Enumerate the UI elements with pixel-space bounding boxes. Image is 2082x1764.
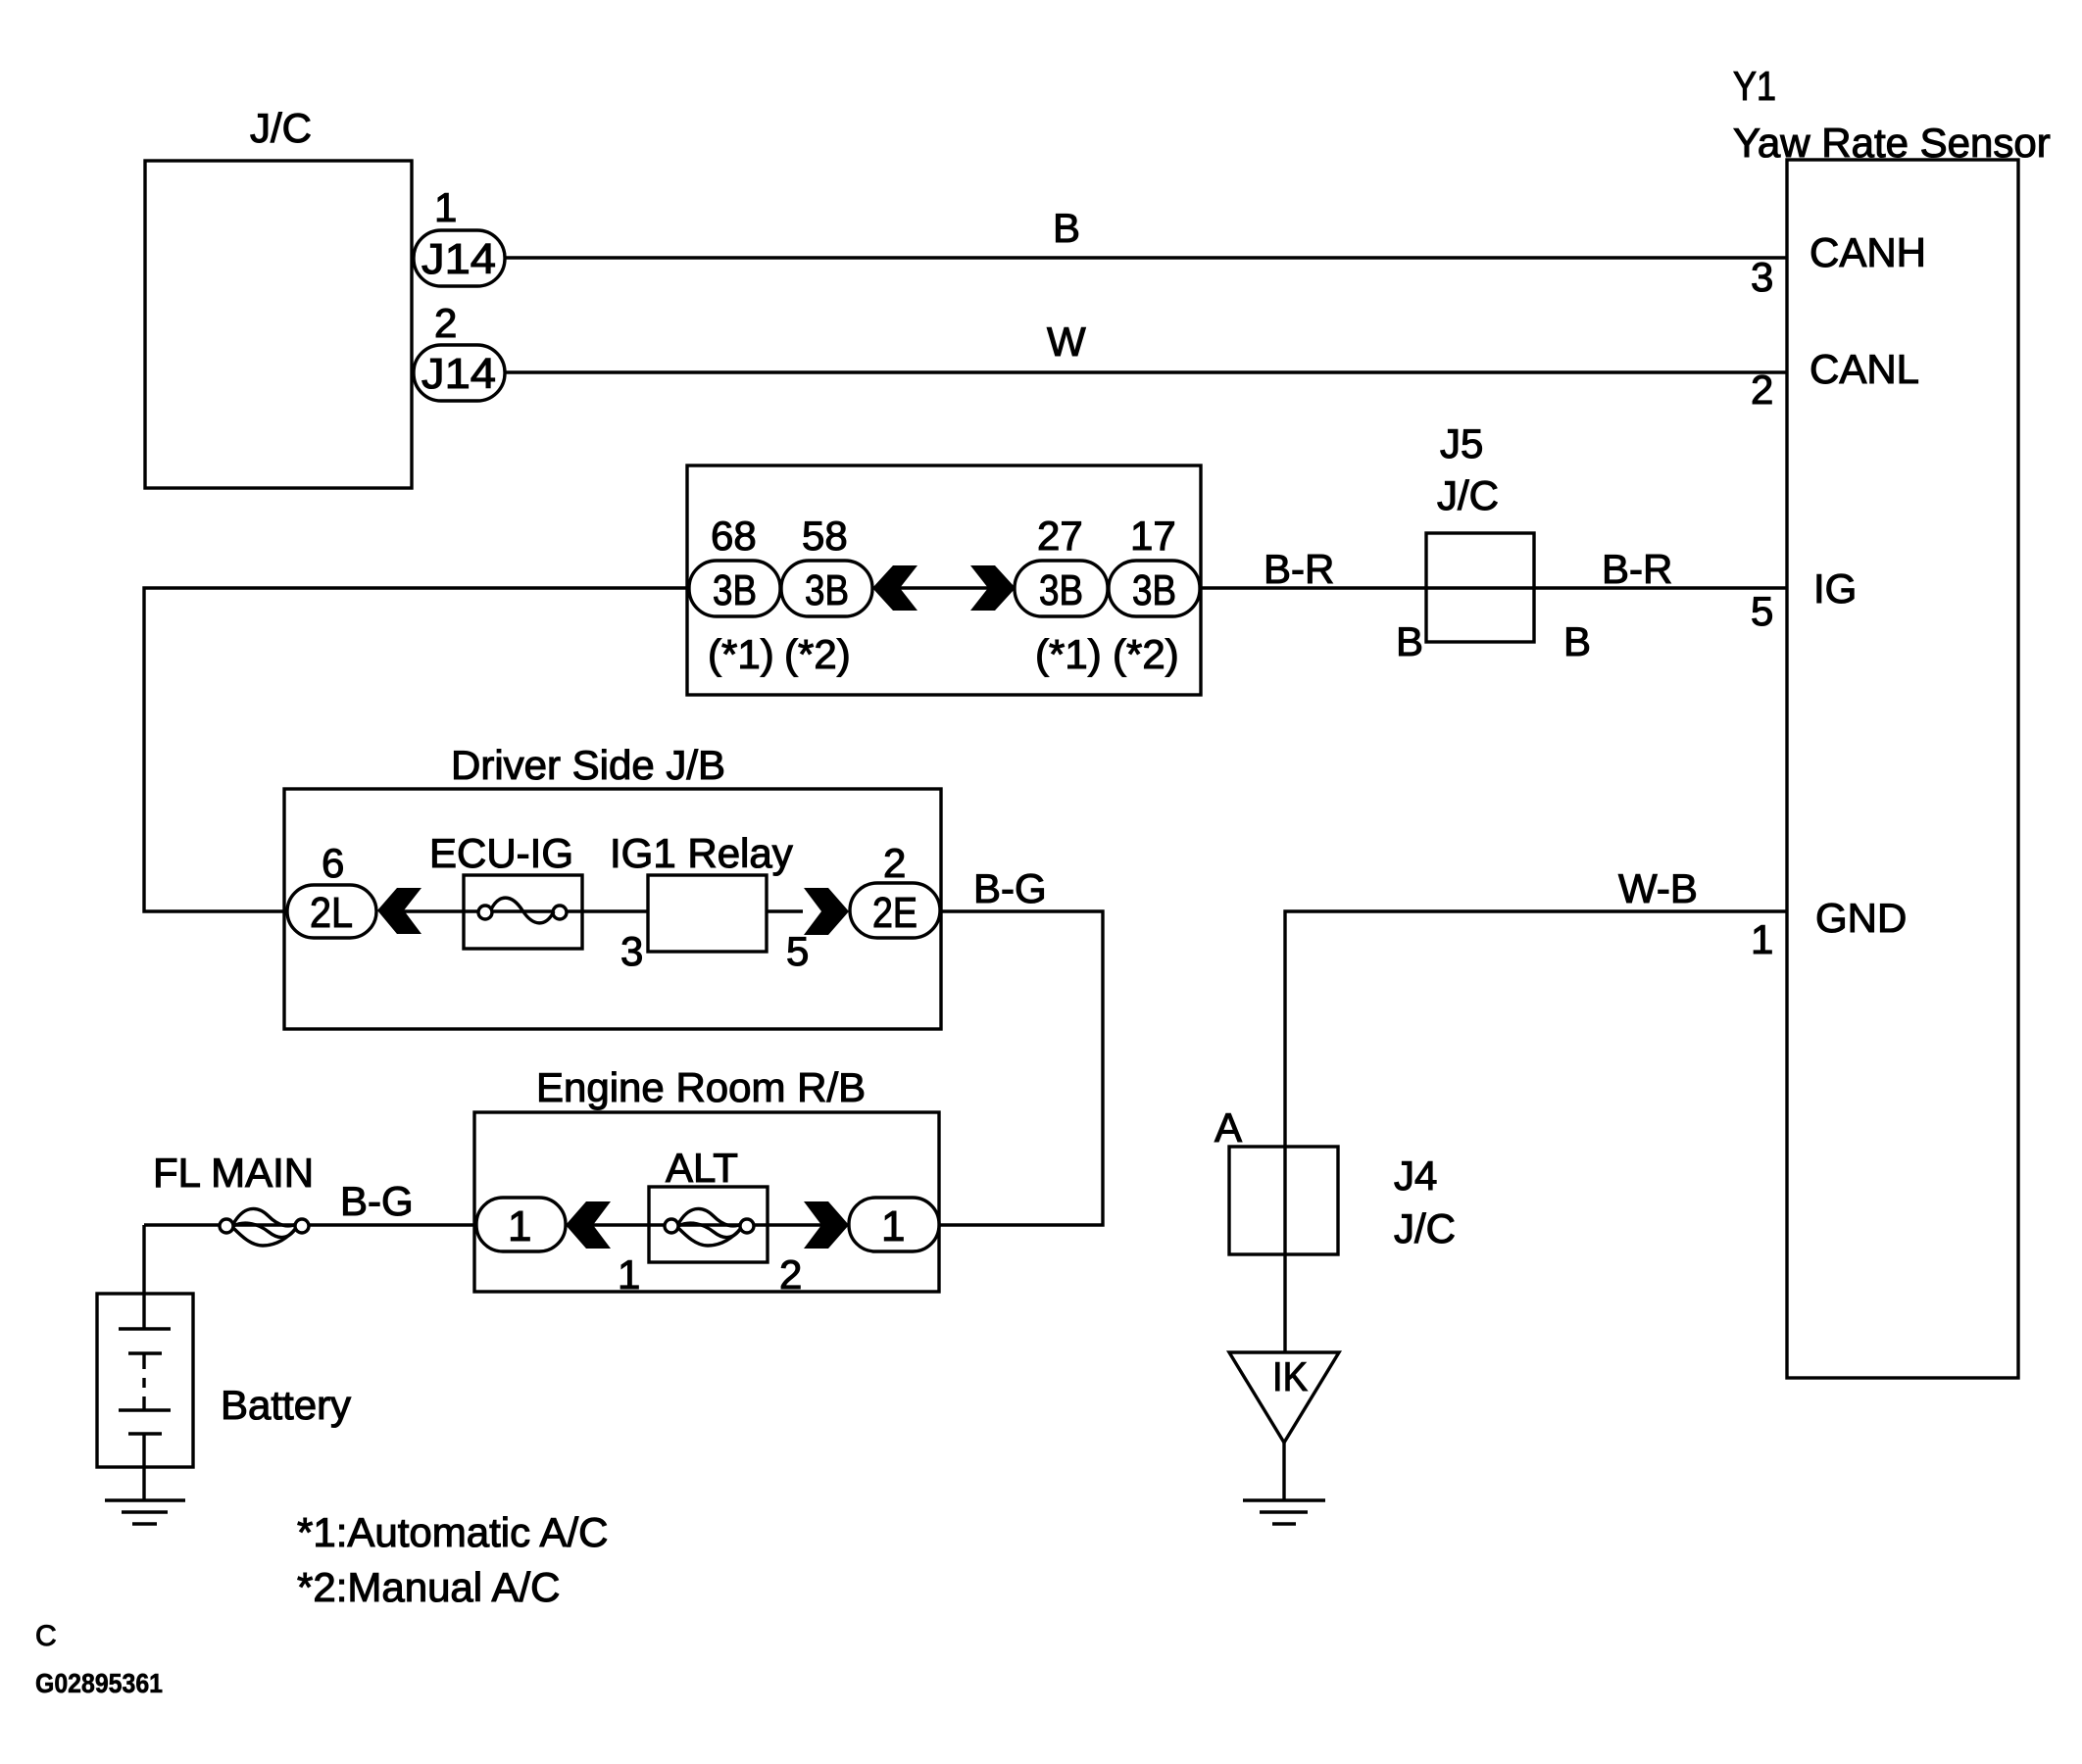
svg-text:Y1: Y1	[1733, 63, 1776, 109]
svg-text:W: W	[1047, 318, 1086, 365]
arrow right (2E)	[804, 888, 849, 935]
svg-text:FL MAIN: FL MAIN	[153, 1150, 314, 1196]
svg-text:ALT: ALT	[666, 1145, 738, 1191]
ground (IK)	[1243, 1498, 1325, 1501]
svg-text:Engine Room R/B: Engine Room R/B	[536, 1064, 866, 1110]
svg-text:B: B	[1053, 205, 1080, 251]
svg-text:Battery: Battery	[221, 1382, 351, 1428]
svg-text:CANH: CANH	[1809, 229, 1926, 275]
svg-text:B-G: B-G	[973, 865, 1047, 911]
svg-text:2: 2	[883, 840, 906, 886]
Yaw Rate Sensor Y1 box	[1787, 160, 2018, 1378]
ground triangle IK	[1229, 1352, 1339, 1443]
wire arrow through fuse to relay	[404, 909, 648, 912]
connector 3B pin 17	[1109, 561, 1200, 616]
arrow right (A/C box)	[970, 565, 1016, 611]
wire B-G from 2E down to Engine Room R/B	[939, 911, 1103, 1225]
svg-text:ECU-IG: ECU-IG	[429, 830, 573, 876]
wire to battery	[142, 1225, 145, 1294]
svg-text:Yaw Rate Sensor: Yaw Rate Sensor	[1733, 120, 2051, 166]
wire from A/C junction box left to left rail	[144, 588, 687, 911]
svg-text:58: 58	[802, 513, 848, 559]
svg-text:2L: 2L	[310, 889, 353, 937]
svg-text:GND: GND	[1815, 895, 1907, 941]
wire relay to arrow	[767, 909, 803, 912]
wire FL MAIN to Engine Room R/B	[144, 1223, 476, 1226]
svg-text:1: 1	[881, 1202, 905, 1250]
arrow left (Engine Room)	[566, 1201, 611, 1249]
connector 1 oval right	[849, 1198, 939, 1251]
connector 2L pin 6 oval	[287, 885, 376, 938]
svg-text:A: A	[1214, 1104, 1242, 1151]
ground (battery)	[105, 1498, 185, 1501]
connector 3B pin 27	[1015, 561, 1108, 616]
fusible link FL MAIN symbol	[220, 1219, 233, 1233]
svg-text:*1:Automatic A/C: *1:Automatic A/C	[297, 1509, 608, 1555]
svg-text:17: 17	[1130, 513, 1176, 559]
svg-text:B-R: B-R	[1264, 546, 1334, 592]
fuse ECU-IG symbol	[478, 906, 492, 919]
svg-text:*2:Manual A/C: *2:Manual A/C	[297, 1564, 561, 1610]
fuse ALT box	[649, 1187, 768, 1262]
svg-text:B-R: B-R	[1602, 546, 1672, 592]
connector 1 oval left	[476, 1198, 566, 1251]
battery box	[97, 1294, 193, 1467]
svg-text:J/C: J/C	[1437, 472, 1499, 518]
svg-text:27: 27	[1037, 513, 1083, 559]
svg-text:CANL: CANL	[1809, 346, 1919, 392]
arrow right (Engine Room)	[804, 1201, 849, 1249]
wire B-R (A/C box to IG pin5 through J5)	[1201, 586, 1787, 589]
fuse ALT symbol	[665, 1219, 678, 1233]
arrows (filled)	[377, 565, 1016, 1249]
svg-text:3: 3	[620, 928, 643, 974]
svg-text:J5: J5	[1440, 420, 1483, 466]
svg-text:6: 6	[322, 840, 344, 886]
svg-text:J14: J14	[421, 235, 496, 283]
svg-text:IK: IK	[1272, 1353, 1308, 1399]
wire W-B (GND pin1)	[1285, 911, 1787, 1352]
svg-text:2E: 2E	[872, 889, 917, 937]
svg-text:2: 2	[434, 300, 457, 346]
svg-text:(*2): (*2)	[784, 631, 851, 677]
Engine Room R/B box	[474, 1112, 939, 1292]
battery symbol	[142, 1294, 145, 1329]
A/C junction connector box	[687, 465, 1201, 695]
svg-text:J14: J14	[421, 350, 496, 398]
Driver Side J/B box	[284, 789, 941, 1029]
svg-text:B: B	[1396, 618, 1423, 664]
arrow left (A/C box)	[872, 565, 917, 611]
svg-text:IG: IG	[1813, 565, 1857, 612]
svg-text:3B: 3B	[805, 566, 849, 614]
connector 3B pin 58	[781, 561, 872, 616]
relay IG1 box	[648, 875, 767, 952]
junction connector J5 box	[1426, 533, 1534, 642]
svg-text:1: 1	[434, 184, 457, 230]
svg-text:W-B: W-B	[1618, 865, 1698, 911]
wire between arrows	[898, 586, 990, 589]
svg-text:3B: 3B	[713, 566, 757, 614]
svg-text:3: 3	[1751, 254, 1773, 300]
connector 3B pin 68	[689, 561, 780, 616]
svg-text:B-G: B-G	[340, 1178, 414, 1224]
arrow left (2L)	[377, 888, 421, 934]
svg-text:(*2): (*2)	[1113, 631, 1179, 677]
svg-text:1: 1	[618, 1251, 640, 1298]
svg-text:2: 2	[1751, 367, 1773, 413]
svg-text:3B: 3B	[1039, 566, 1083, 614]
wire B (J14 pin1 to CANH pin3)	[505, 256, 1787, 259]
wire through ALT fuse	[593, 1223, 821, 1226]
svg-text:J4: J4	[1394, 1152, 1437, 1199]
svg-text:IG1 Relay: IG1 Relay	[610, 830, 793, 876]
svg-text:Driver Side J/B: Driver Side J/B	[451, 742, 725, 788]
svg-text:(*1): (*1)	[1035, 631, 1102, 677]
junction connector J/C box (top-left)	[145, 161, 412, 488]
svg-text:3B: 3B	[1132, 566, 1176, 614]
svg-text:G02895361: G02895361	[35, 1668, 163, 1698]
svg-text:C: C	[35, 1620, 57, 1652]
svg-text:J/C: J/C	[1394, 1205, 1456, 1251]
wire W (J14 pin2 to CANL pin2)	[505, 370, 1787, 373]
svg-text:1: 1	[1751, 916, 1773, 962]
svg-text:2: 2	[779, 1251, 802, 1298]
fuse ECU-IG box	[464, 875, 582, 949]
svg-text:5: 5	[1751, 588, 1773, 634]
svg-text:(*1): (*1)	[708, 631, 774, 677]
svg-text:68: 68	[711, 513, 757, 559]
svg-text:J/C: J/C	[250, 105, 312, 151]
svg-text:1: 1	[508, 1202, 531, 1250]
connector J14 pin 1 oval	[414, 230, 505, 286]
svg-text:B: B	[1563, 618, 1591, 664]
svg-text:5: 5	[786, 928, 809, 974]
connector 2E pin 2 oval	[850, 883, 940, 938]
wire IK to ground	[1282, 1443, 1285, 1500]
connector J14 pin 2 oval	[414, 345, 505, 401]
junction connector J4 box	[1229, 1147, 1338, 1254]
